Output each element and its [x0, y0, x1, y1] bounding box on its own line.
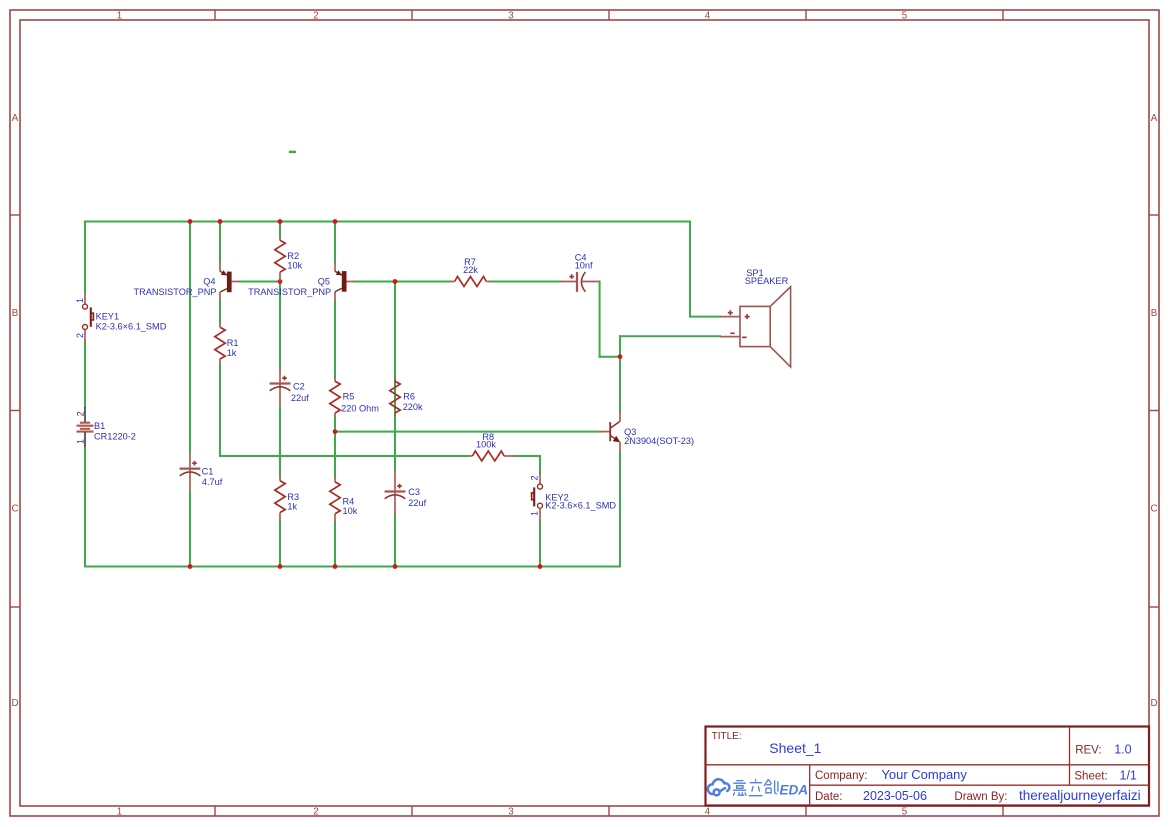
wire Q5 base run [354, 281, 450, 283]
svg-text:2023-05-06: 2023-05-06 [863, 789, 927, 803]
svg-text:2: 2 [76, 411, 86, 416]
resistor R5 [330, 377, 340, 417]
svg-text:4.7uf: 4.7uf [202, 477, 223, 487]
wire R8 to KEY2 corner [515, 455, 541, 457]
svg-text:TRANSISTOR_PNP: TRANSISTOR_PNP [133, 287, 216, 297]
transistor Q3 NPN [601, 412, 621, 452]
ruler tick top 5 [1002, 10, 1004, 20]
wire Q5 emitter branch [334, 222, 336, 263]
svg-text:4: 4 [705, 807, 711, 818]
svg-text:220k: 220k [403, 402, 423, 412]
battery B1 [77, 407, 94, 447]
svg-text:Company:: Company: [815, 770, 867, 782]
ruler tick top 4 [805, 10, 807, 20]
svg-text:A: A [12, 113, 19, 124]
svg-text:R1: R1 [227, 338, 239, 348]
wire R3 to ground [279, 522, 281, 567]
resistor R2 [275, 237, 285, 282]
svg-text:Date:: Date: [815, 791, 843, 803]
svg-text:REV:: REV: [1075, 744, 1101, 756]
resistor R4 [330, 477, 340, 523]
wire left rail lower [84, 447, 86, 567]
wire KEY2 to ground [539, 521, 541, 567]
wire C1 branch upper [189, 222, 191, 453]
svg-text:22uf: 22uf [291, 393, 309, 403]
svg-text:C: C [1150, 503, 1157, 514]
ruler tick left 3 [10, 606, 20, 608]
svg-text:Sheet:: Sheet: [1074, 771, 1107, 783]
svg-text:22k: 22k [463, 265, 478, 275]
junction node 12 [393, 564, 398, 569]
resistor R3 [275, 476, 285, 522]
svg-text:10k: 10k [287, 261, 302, 271]
svg-text:1.0: 1.0 [1114, 743, 1131, 757]
svg-text:2N3904(SOT-23): 2N3904(SOT-23) [624, 436, 694, 446]
wire to node under C4 [600, 356, 620, 358]
svg-text:R2: R2 [287, 251, 299, 261]
junction node 9 [188, 564, 193, 569]
JLCEDA logo text li (drawn strokes) [749, 779, 763, 796]
resistor R1 [215, 323, 225, 365]
svg-text:K2-3.6×6.1_SMD: K2-3.6×6.1_SMD [96, 322, 167, 332]
svg-text:CR1220-2: CR1220-2 [94, 432, 136, 442]
wire KEY2 top stub [539, 456, 541, 473]
JLCEDA logo text chuang (drawn strokes) [764, 779, 778, 794]
ruler tick left 2 [10, 410, 20, 412]
wire Q3 emitter down [619, 451, 621, 566]
resistor R7 [451, 277, 491, 287]
title block REV column divider [1069, 727, 1071, 786]
ruler tick right 1 [1149, 214, 1159, 216]
wire speaker plus run [690, 316, 720, 318]
svg-text:220 Ohm: 220 Ohm [341, 403, 379, 413]
ruler tick bottom 5 [1002, 806, 1004, 816]
svg-text:3: 3 [508, 10, 514, 21]
svg-text:10nf: 10nf [575, 261, 593, 271]
svg-text:Sheet_1: Sheet_1 [769, 740, 821, 756]
junction node 5 [278, 279, 283, 284]
wire C2 to R3 [279, 407, 281, 476]
ruler tick top 1 [214, 10, 216, 20]
resistor R6 [390, 377, 400, 417]
junction node 13 [538, 564, 543, 569]
junction node 1 [188, 219, 193, 224]
svg-text:4: 4 [705, 10, 711, 21]
wire Q5 collector to R5 [334, 301, 336, 377]
wire feedback run to R8 [220, 455, 468, 457]
svg-text:B: B [1151, 308, 1158, 319]
junction node 11 [333, 564, 338, 569]
wire Q4 emitter branch [219, 222, 221, 262]
junction node 6 [393, 279, 398, 284]
capacitor C2 [270, 369, 291, 407]
ruler tick right 2 [1149, 410, 1159, 412]
wire left rail middle [84, 341, 86, 407]
wire bottom ground rail [85, 566, 620, 568]
svg-text:D: D [1150, 698, 1157, 709]
svg-text:2: 2 [313, 10, 318, 21]
capacitor C3 [385, 471, 406, 514]
wire speaker minus run [620, 335, 720, 337]
pushbutton KEY1 [83, 292, 94, 341]
wire top power rail [85, 221, 690, 223]
wire speaker plus drop [689, 222, 691, 317]
title block outer border [706, 727, 1150, 806]
junction node 10 [278, 564, 283, 569]
svg-text:22uf: 22uf [408, 498, 426, 508]
svg-text:D: D [11, 698, 18, 709]
ruler tick bottom 4 [805, 806, 807, 816]
title block row divider 1 [706, 764, 1150, 766]
wire C1 branch lower [189, 492, 191, 567]
svg-text:2: 2 [75, 333, 85, 338]
svg-text:A: A [1151, 113, 1158, 124]
svg-text:1/1: 1/1 [1120, 769, 1137, 783]
ruler tick right 3 [1149, 606, 1159, 608]
wire Q4 base to node [240, 281, 280, 283]
svg-text:Drawn By:: Drawn By: [954, 791, 1007, 803]
wire R5 to node [334, 417, 336, 432]
wire R1 to feedback run [219, 364, 221, 456]
svg-text:1: 1 [76, 439, 86, 444]
ruler tick bottom 3 [608, 806, 610, 816]
svg-text:R3: R3 [287, 492, 299, 502]
svg-text:1k: 1k [227, 348, 237, 358]
JLCEDA logo cloud icon [708, 779, 730, 795]
wire Q3 base run [335, 431, 601, 433]
ruler tick left 1 [10, 214, 20, 216]
wire C3 to ground [394, 515, 396, 567]
svg-text:TRANSISTOR_PNP: TRANSISTOR_PNP [248, 287, 331, 297]
svg-text:R6: R6 [403, 392, 415, 402]
wire left rail upper [84, 222, 86, 293]
wire R6 branch [394, 282, 396, 472]
wire C4 corner down [599, 282, 601, 357]
svg-text:B: B [12, 308, 19, 319]
ruler tick bottom 1 [214, 806, 216, 816]
svg-text:R4: R4 [343, 497, 355, 507]
svg-text:C1: C1 [202, 467, 214, 477]
svg-text:C2: C2 [293, 382, 305, 392]
wire R7 to C4 [490, 281, 560, 283]
junction node 7 [333, 429, 338, 434]
svg-text:1: 1 [117, 807, 122, 818]
pushbutton KEY2 [532, 473, 543, 521]
svg-text:Your Company: Your Company [881, 767, 967, 782]
ruler tick top 3 [608, 10, 610, 20]
junction node 8 [618, 354, 623, 359]
wire R2 top stub [279, 222, 281, 237]
svg-text:10k: 10k [343, 506, 358, 516]
ruler tick bottom 2 [411, 806, 413, 816]
junction node 3 [278, 219, 283, 224]
transistor Q4 PNP [220, 262, 240, 301]
wire Q3 collector up [619, 357, 621, 412]
svg-text:KEY1: KEY1 [96, 311, 120, 321]
transistor Q5 PNP [335, 262, 354, 301]
resistor R8 [468, 451, 515, 461]
svg-text:Q5: Q5 [318, 277, 330, 287]
svg-text:K2-3.6×6.1_SMD: K2-3.6×6.1_SMD [545, 501, 616, 511]
svg-text:Q4: Q4 [203, 277, 215, 287]
svg-text:TITLE:: TITLE: [712, 731, 742, 742]
junction node 4 [333, 219, 338, 224]
JLCEDA logo text jia (drawn strokes) [733, 781, 746, 796]
ruler tick top 2 [411, 10, 413, 20]
speaker SP1 [720, 287, 791, 367]
capacitor C1 [180, 452, 201, 491]
wire R4 to ground [334, 523, 336, 567]
svg-text:1k: 1k [287, 501, 297, 511]
title block row divider 2 [810, 784, 1149, 786]
junction node 2 [218, 219, 223, 224]
svg-text:1: 1 [529, 511, 539, 516]
svg-text:therealjourneyerfaizi: therealjourneyerfaizi [1019, 788, 1141, 803]
wire node to R4 [334, 432, 336, 477]
svg-text:100k: 100k [476, 440, 496, 450]
svg-text:EDA: EDA [780, 782, 809, 797]
wire node up to speaker minus [619, 336, 621, 357]
capacitor C4 [560, 272, 600, 292]
svg-text:C: C [11, 503, 18, 514]
svg-text:2: 2 [529, 475, 539, 480]
svg-text:B1: B1 [94, 421, 105, 431]
wire Q4 collector to R1 [219, 301, 221, 323]
stray net stub [289, 151, 296, 153]
svg-text:1: 1 [75, 298, 85, 303]
svg-text:1: 1 [117, 10, 122, 21]
svg-text:R5: R5 [343, 392, 355, 402]
svg-text:C3: C3 [408, 487, 420, 497]
svg-text:5: 5 [902, 807, 908, 818]
svg-text:3: 3 [508, 807, 514, 818]
title block logo cell divider [809, 765, 811, 806]
wire node to C2 [279, 282, 281, 370]
svg-text:2: 2 [313, 807, 318, 818]
svg-text:SPEAKER: SPEAKER [745, 276, 789, 286]
svg-text:5: 5 [902, 10, 908, 21]
